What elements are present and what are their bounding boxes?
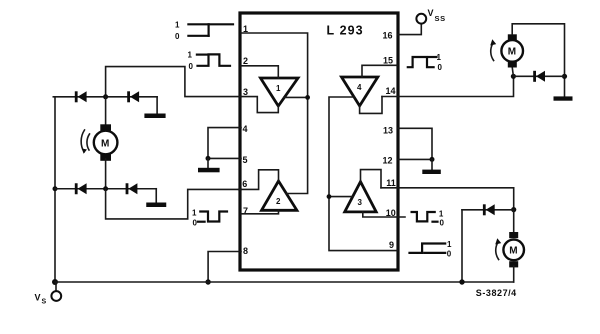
node diode/ground M2 (562, 74, 567, 79)
wire pin10 to driver3 input (363, 212, 405, 217)
svg-text:0: 0 (175, 32, 180, 41)
diode D4 (clamp to gnd, lower right) (126, 183, 138, 194)
svg-text:15: 15 (383, 55, 393, 65)
svg-text:S: S (42, 299, 47, 306)
svg-text:1: 1 (447, 240, 452, 249)
wire driver3 output to pin11 (361, 170, 382, 188)
svg-text:11: 11 (386, 178, 396, 188)
svg-text:L 293: L 293 (327, 24, 364, 38)
wire pin8 to Vs rail (205, 252, 241, 285)
enable2 net from pin9 (327, 97, 397, 251)
svg-text:5: 5 (243, 155, 248, 165)
motor M1 (bidirectional) (94, 97, 118, 189)
diode D5 (freewheel M2) (533, 71, 545, 82)
terminal Vs (35, 282, 62, 306)
wire bottom diode row (55, 188, 156, 190)
op-amp driver 4 (triangle, down) (342, 77, 378, 106)
svg-text:0: 0 (440, 219, 445, 228)
svg-text:4: 4 (243, 124, 248, 134)
svg-text:4: 4 (357, 83, 362, 92)
op-amp driver 3 (triangle, up) (345, 182, 377, 212)
diode D1 (clamp to Vs, upper left) (75, 91, 87, 102)
input waveform at pin9 (step 1/0) (410, 240, 453, 259)
svg-text:6: 6 (242, 179, 247, 189)
input waveform at pin7 (negative pulse 1/0) (192, 209, 227, 228)
node motor top (103, 94, 108, 99)
svg-text:1: 1 (192, 209, 197, 218)
svg-text:3: 3 (243, 87, 248, 97)
wire pin2 to driver1 input (241, 66, 278, 78)
input waveform at pin15 (positive pulse 1/0) (408, 53, 443, 72)
svg-text:12: 12 (383, 156, 393, 166)
motor M3 (bottom right) (503, 210, 524, 282)
svg-text:3: 3 (358, 198, 363, 207)
svg-text:2: 2 (243, 56, 248, 66)
Vs supply rail bottom (55, 281, 514, 283)
input waveform at pin10 (negative pulse 1/0) (412, 210, 445, 228)
wire driver4 output to pin14 (360, 97, 382, 114)
diode D3 (clamp to Vs, lower left) (75, 183, 87, 194)
motor M2 (top right) (501, 24, 564, 97)
rotation arrow M2 (490, 39, 496, 60)
ground at pins 13 and 12 (398, 128, 441, 174)
supply rail left (Vs) (52, 97, 58, 285)
rotation arrows M1 (81, 130, 89, 154)
wire pin6 to driver2 output (239, 170, 279, 190)
diode D2 (clamp to gnd, upper right) (127, 91, 139, 102)
wire pin11 to motor M3 (381, 188, 516, 212)
svg-text:13: 13 (383, 125, 393, 135)
wire pin14 to motor M2 (382, 74, 516, 97)
svg-text:M: M (509, 246, 517, 257)
svg-text:SS: SS (435, 14, 446, 23)
wire top diode row (55, 96, 157, 98)
op-amp driver 1 (triangle, down) (261, 78, 299, 106)
svg-text:8: 8 (243, 246, 248, 256)
ground (lower left bridge) (146, 189, 166, 207)
svg-text:9: 9 (389, 240, 394, 250)
diode D6 (freewheel M3) (483, 204, 495, 215)
terminal Vss (398, 8, 446, 35)
rotation arrow M3 (495, 238, 501, 259)
input waveform at pin2 (positive pulse 1/0) (188, 51, 231, 72)
svg-text:0: 0 (438, 63, 443, 72)
svg-text:M: M (508, 47, 516, 58)
svg-text:14: 14 (386, 86, 396, 96)
pin labels right side 9-16 (383, 30, 396, 250)
svg-text:V: V (35, 293, 41, 303)
wire pin7 to driver2 input (241, 210, 279, 214)
svg-text:S-3827/4: S-3827/4 (476, 288, 517, 298)
input waveform at pin1 (step 1/0) (175, 21, 233, 42)
wire driver1 output to pin3 (241, 97, 278, 113)
wire pin15 to driver4 input (362, 65, 397, 77)
svg-text:M: M (101, 139, 109, 150)
pin labels left side 1-8 (242, 24, 248, 256)
svg-text:0: 0 (193, 219, 198, 228)
svg-text:1: 1 (175, 21, 180, 30)
svg-text:V: V (428, 8, 434, 18)
svg-text:1: 1 (439, 210, 444, 219)
svg-text:1: 1 (276, 84, 281, 93)
wire pin3 to motor bridge (106, 67, 241, 97)
wire M2 freewheel (513, 75, 564, 77)
ground at pins 4 and 5 (198, 128, 241, 173)
svg-text:0: 0 (447, 250, 452, 259)
node motor bottom (103, 186, 108, 191)
svg-text:1: 1 (437, 53, 442, 62)
enable1 net from pin1 (241, 33, 310, 194)
IC U1 L293 body (240, 13, 398, 270)
op-amp driver 2 (triangle, up) (262, 181, 297, 210)
wire motor bottom to pin6 (106, 189, 241, 219)
wire M3 freewheel to Vs (459, 210, 513, 285)
ground (upper left bridge) (144, 97, 165, 118)
svg-text:0: 0 (189, 62, 194, 71)
svg-text:1: 1 (188, 51, 193, 60)
svg-text:2: 2 (276, 197, 281, 206)
ground (M2) (554, 96, 573, 100)
svg-text:16: 16 (383, 30, 393, 40)
